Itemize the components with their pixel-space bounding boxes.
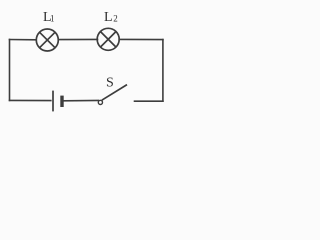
svg-text:L: L [104, 10, 113, 25]
battery B1 [53, 91, 62, 112]
lamp L2 [97, 28, 119, 50]
svg-text:2: 2 [113, 13, 118, 23]
switch blade lever [102, 85, 127, 101]
lamp L1 [36, 29, 58, 51]
switch pivot contact ring [98, 100, 102, 104]
svg-text:S: S [106, 75, 114, 90]
wire: top right segment [119, 38, 163, 40]
wire: left vertical [9, 40, 11, 101]
wire: top middle segment between lamps [58, 38, 97, 40]
battery long plate (+) [52, 91, 54, 112]
battery short plate (-) [60, 96, 63, 107]
wire: right vertical [162, 40, 164, 102]
wire: bottom left segment to battery [10, 99, 51, 101]
wire: top left segment [10, 39, 37, 41]
svg-text:1: 1 [50, 14, 55, 24]
switch S [98, 85, 127, 105]
wire: bottom right segment to switch fixed contact [135, 100, 163, 102]
wire: battery to switch pivot [64, 99, 98, 101]
